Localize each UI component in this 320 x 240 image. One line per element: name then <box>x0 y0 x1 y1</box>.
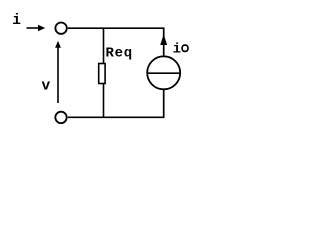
wire top rail <box>68 28 164 56</box>
current direction arrow for i <box>27 27 40 29</box>
svg-text:i: i <box>173 41 181 57</box>
svg-text:i: i <box>12 13 21 29</box>
wire resistor branch bottom <box>103 84 105 118</box>
voltage v reference arrow <box>57 48 59 104</box>
resistor Req <box>99 64 105 84</box>
node B : bottom terminal <box>55 112 66 123</box>
current source arrow head <box>160 34 167 45</box>
node A : top terminal <box>55 23 66 34</box>
svg-text:Req: Req <box>106 46 133 62</box>
current source i0 <box>147 56 180 89</box>
wire bottom rail <box>68 90 164 118</box>
svg-text:v: v <box>42 79 51 95</box>
wire resistor branch top <box>103 29 105 64</box>
